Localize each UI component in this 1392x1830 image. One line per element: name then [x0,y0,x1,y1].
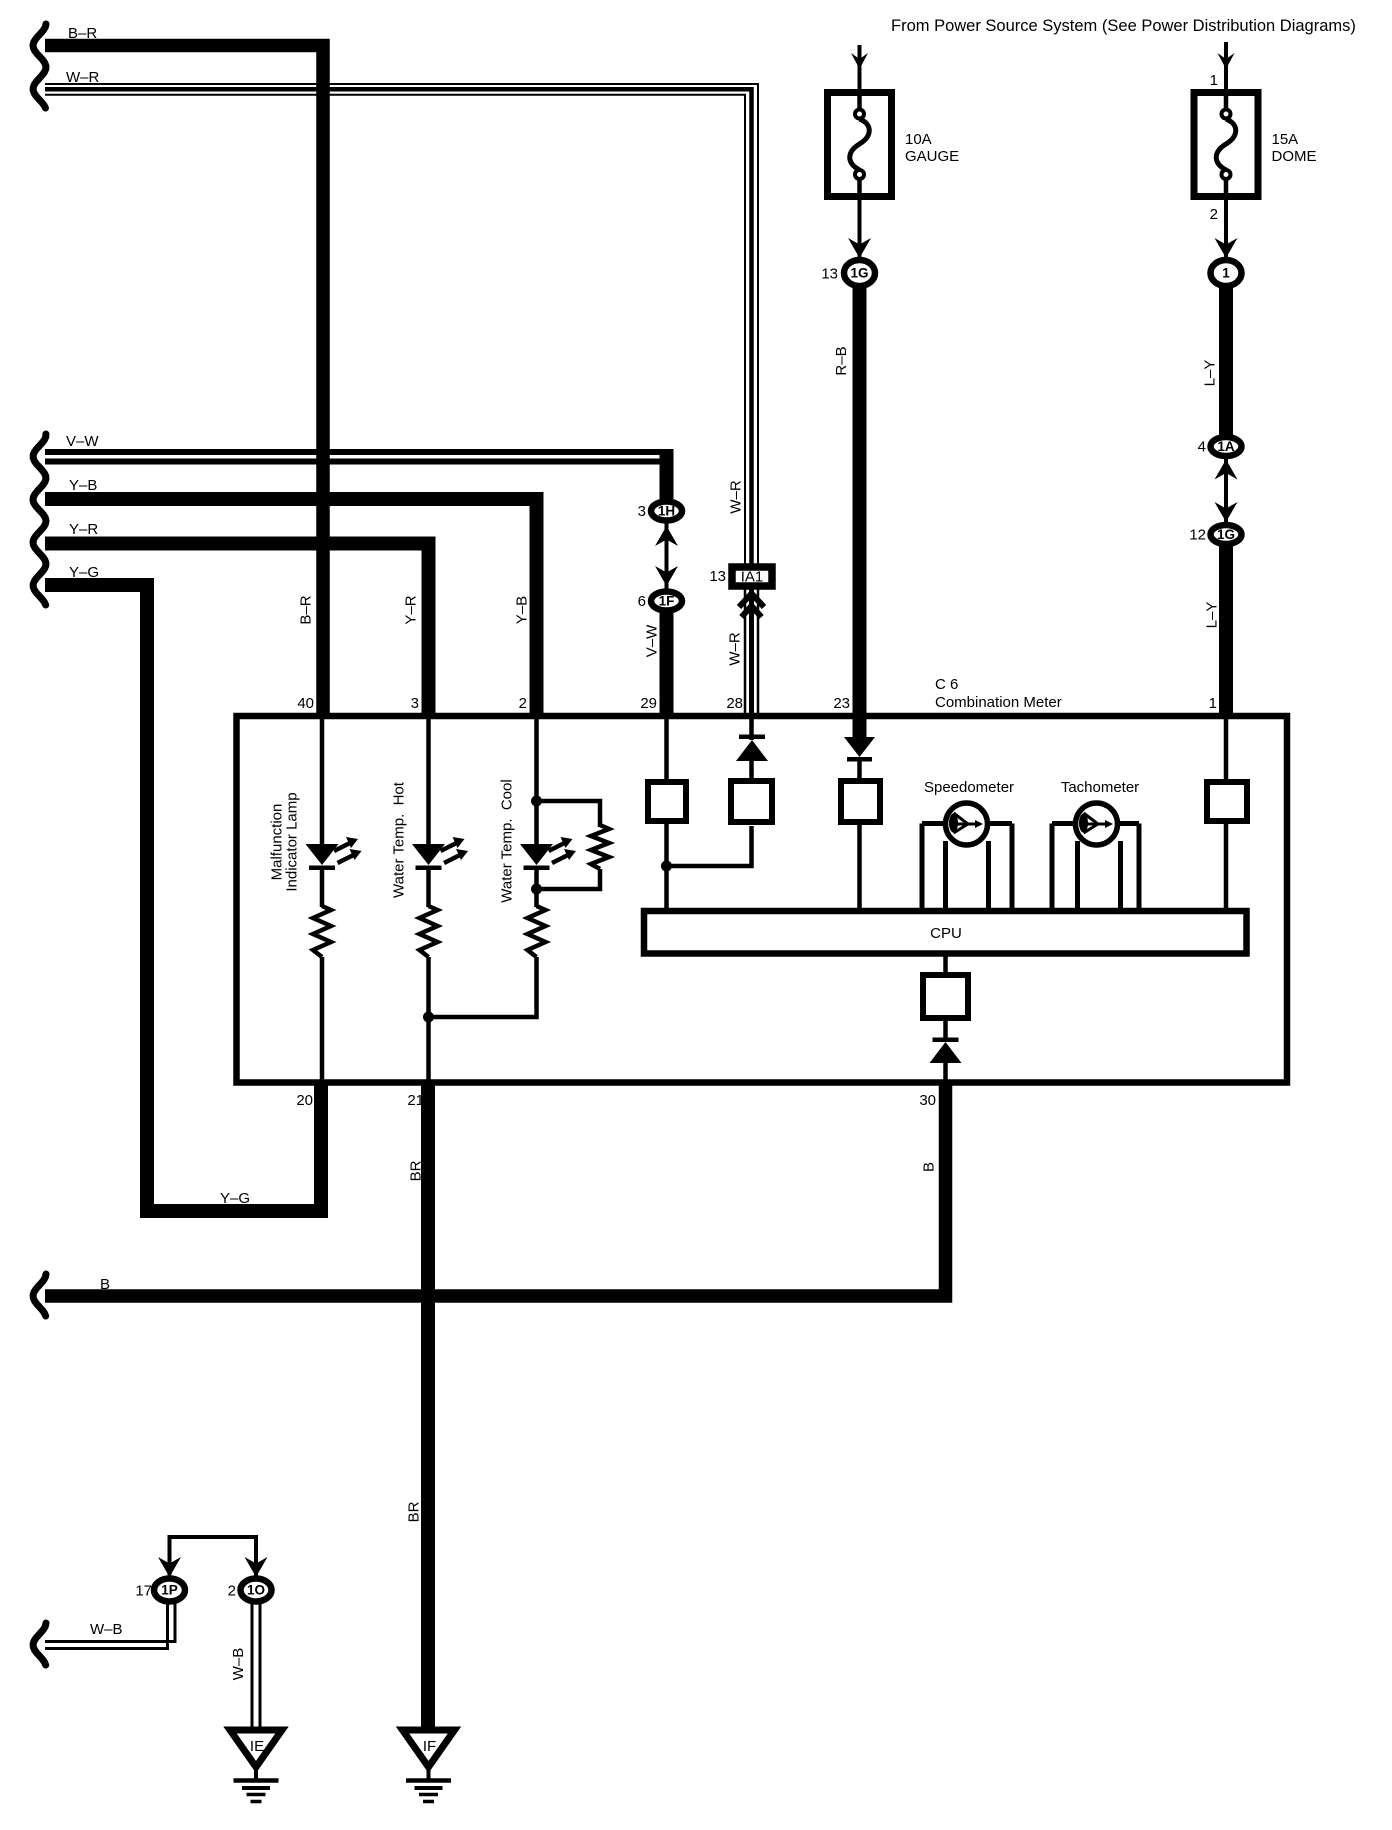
svg-text:Water Temp. Hot: Water Temp. Hot [391,781,408,898]
connector 1A [1211,437,1242,456]
connector line 1A-1G [1224,455,1228,525]
bridge wire 1P-1O [170,1537,257,1578]
svg-text:40: 40 [297,695,314,712]
svg-text:29: 29 [640,695,657,712]
wire V-W from 1F to pin 29 [660,612,674,716]
svg-text:17: 17 [135,1583,152,1600]
svg-text:13: 13 [709,568,726,585]
wire V-W double horizontal [45,452,674,462]
svg-text:W–R: W–R [727,632,744,666]
connector 1F [651,592,682,611]
LED water temp cool [520,837,576,870]
svg-text:BR: BR [406,1501,423,1522]
wire Cool branch return [537,869,601,889]
svg-text:R–B: R–B [833,346,850,375]
svg-text:1: 1 [1209,695,1217,712]
svg-text:1O: 1O [247,1583,265,1598]
svg-text:Y–G: Y–G [220,1190,250,1207]
connector 1G pin 13 [844,260,875,286]
svg-text:1H: 1H [658,504,675,519]
arrow into 1H [655,526,678,546]
junction dot Cool top [531,796,542,807]
svg-text:B: B [100,1276,110,1293]
svg-text:1A: 1A [1217,439,1235,454]
junction connector IA1 [732,567,772,586]
arrow from power source to fuse GAUGE [851,45,868,92]
connector 1 [1211,260,1242,286]
diode pin 23 [844,737,875,762]
wire CPU to output component [943,953,948,975]
wire pin 23 to diode [853,719,867,738]
wire diode to box edge pin 30 [943,1063,948,1082]
svg-text:1G: 1G [850,266,868,281]
wire diode 28 to component [749,761,754,781]
wire W-B double to 1P [45,1602,175,1649]
wire pin 29 to component [664,719,669,782]
component box pin 29 [648,782,686,821]
wire B break squiggle [33,1274,46,1316]
wire output component to diode [943,1018,948,1040]
wire component 1 to CPU [1224,824,1229,911]
svg-text:C 6: C 6 [935,676,958,693]
combination meter C6 box [237,716,1288,1083]
wire W-B double 1O to ground IE [252,1602,260,1729]
wire resistor Cool to junction [429,957,537,1017]
connector line 1H-1F [665,520,669,590]
wire B horizontal to pin 30 [45,1082,946,1296]
component box pin 1 [1207,782,1247,821]
arrow into 1F [655,566,678,586]
wire Cool lamp to resistor [534,870,539,907]
junction dot Cool bottom [531,884,542,895]
component box pin 28 [731,781,772,822]
svg-text:CPU: CPU [930,925,962,942]
tachometer gauge [1052,803,1139,911]
svg-text:IE: IE [250,1738,264,1755]
svg-text:L–Y: L–Y [1204,602,1221,629]
wire R-B from 1G to pin 23 [853,286,867,737]
svg-text:IF: IF [423,1738,436,1755]
connector 1O [241,1579,272,1602]
wire Hot lamp to resistor [426,870,431,907]
wire W-R shielded from IA1 to pin 28 [745,589,758,716]
svg-text:DOME: DOME [1272,148,1317,165]
svg-text:W–B: W–B [230,1648,247,1681]
svg-text:Tachometer: Tachometer [1061,779,1139,796]
resistor MIL [313,906,331,957]
diode pin 28 [736,735,768,762]
wire MIL lamp to resistor [320,870,325,907]
component box output [923,975,968,1018]
resistor Hot [420,906,438,957]
svg-text:3: 3 [411,695,419,712]
svg-text:15A: 15A [1272,131,1299,148]
LED water temp hot [412,837,468,870]
wire pin 2 to Cool lamp [534,719,539,846]
connector 1P [154,1579,185,1602]
svg-text:2: 2 [1210,206,1218,223]
svg-text:4: 4 [1198,439,1206,456]
svg-text:10A: 10A [905,131,932,148]
svg-text:IA1: IA1 [741,569,764,586]
svg-text:B–R: B–R [298,595,315,624]
wire L-Y from 1G to pin 1 [1219,546,1233,716]
wire pin 40 to MIL lamp [320,719,325,846]
svg-text:B: B [921,1162,938,1172]
svg-text:Speedometer: Speedometer [924,779,1014,796]
svg-text:3: 3 [638,503,646,520]
svg-text:1F: 1F [659,594,675,609]
svg-text:Y–R: Y–R [403,595,420,624]
svg-text:Y–R: Y–R [69,521,98,538]
connector 1H [651,502,682,521]
svg-text:Combination Meter: Combination Meter [935,694,1062,711]
wire component 29 to CPU [664,824,669,911]
svg-text:1G: 1G [1217,527,1235,542]
wire pin 3 to Hot lamp [426,719,431,846]
wire pin 28 to diode [749,719,754,740]
LED malfunction indicator lamp [306,837,362,870]
wire V-W break squiggle [33,434,46,605]
arrow into 1P [158,1557,181,1577]
arrow into 1G pin 12 [1215,502,1238,522]
wire component 23 to CPU [857,822,862,911]
svg-text:1P: 1P [161,1583,178,1598]
svg-text:W–R: W–R [66,69,100,86]
chevron arrows into IA1 [739,594,764,618]
speedometer gauge [922,803,1012,911]
svg-text:Y–B: Y–B [69,477,97,494]
svg-text:1: 1 [1222,266,1230,281]
wire V-W vertical to connector 1H [660,449,674,499]
junction dot 29-28 [661,861,672,872]
svg-text:2: 2 [228,1583,236,1600]
wire pin 1 to component [1224,719,1229,782]
svg-text:2: 2 [519,695,527,712]
fuse 10A GAUGE [828,93,960,197]
svg-text:28: 28 [726,695,743,712]
arrow into connector 1G [848,238,871,258]
svg-text:BR: BR [408,1160,425,1181]
arrow into 1A [1215,460,1238,480]
svg-text:6: 6 [638,593,646,610]
arrow into 1O [245,1557,268,1577]
wire resistor MIL to pin 20 [320,957,325,1082]
svg-text:Y–B: Y–B [514,596,531,624]
svg-text:Water Temp. Cool: Water Temp. Cool [499,779,516,902]
svg-text:1: 1 [1210,72,1218,89]
svg-text:B–R: B–R [68,25,97,42]
wire fuse GAUGE to connector 1G [858,196,862,258]
svg-text:30: 30 [919,1092,936,1109]
wire W-B break squiggle [33,1623,46,1665]
svg-text:From Power Source System (See: From Power Source System (See Power Dist… [891,17,1356,35]
fuse 15A DOME [1194,93,1317,197]
wire B-R horizontal+vertical to pin 40 [45,46,323,717]
arrow into connector 1 [1215,238,1238,258]
svg-text:V–W: V–W [66,433,99,450]
wire junction to component 28 [667,826,752,866]
svg-text:W–B: W–B [90,1621,123,1638]
svg-text:12: 12 [1189,527,1206,544]
resistor Cool [528,906,546,957]
svg-text:V–W: V–W [644,624,661,657]
wire W-R shielded horizontal+vertical to IA1 [45,84,758,564]
connector 1G pin 12 [1211,525,1242,544]
svg-text:20: 20 [296,1092,313,1109]
component box pin 23 [841,781,880,822]
svg-text:23: 23 [833,695,850,712]
svg-text:W–R: W–R [728,480,745,514]
wire Y-G horizontal, down, across, up to pin 20 [45,585,321,1211]
wire resistor Hot to pin 21 [426,957,431,1082]
svg-text:L–Y: L–Y [1202,360,1219,387]
resistor Cool branch [591,825,609,869]
wire BR pin 21 to ground IF [421,1082,435,1729]
wire L-Y from 1 to 1A [1219,286,1233,437]
ground IF [403,1730,455,1802]
wire Cool parallel branch [537,801,601,827]
svg-text:13: 13 [821,266,838,283]
CPU block [644,911,1247,954]
wire Y-R horizontal+vertical to pin 3 [45,544,429,717]
arrow from power source to fuse DOME [1218,42,1235,92]
wire Y-B horizontal+vertical to pin 2 [45,499,537,716]
svg-text:GAUGE: GAUGE [905,148,959,165]
wire diode 23 to component [857,761,862,781]
svg-text:Y–G: Y–G [69,564,99,581]
diode pin 30 [930,1038,962,1064]
ground IE [230,1730,282,1802]
wire B-R break squiggle [33,24,46,108]
label Malfunction Indicator Lamp [269,792,301,891]
svg-text:Indicator Lamp: Indicator Lamp [284,792,301,891]
junction dot Hot-Cool [423,1012,434,1023]
wire fuse DOME to connector 1 [1224,196,1228,258]
